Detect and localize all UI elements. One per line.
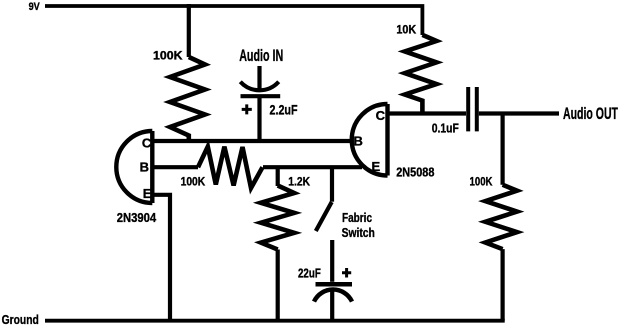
plus sign of C1 — [242, 104, 252, 114]
svg-text:Ground: Ground — [2, 312, 39, 327]
resistor R2 100K (horizontal) — [198, 147, 263, 188]
resistor R1 100K (left vertical) — [170, 57, 205, 143]
wire Q1 collector to Q2 base — [152, 139, 352, 143]
capacitor C2 22uF straight plate — [316, 282, 353, 287]
svg-text:E: E — [143, 186, 152, 201]
wire R2 to Q2 emitter — [263, 165, 362, 169]
svg-text:2N3904: 2N3904 — [117, 211, 157, 225]
svg-text:100K: 100K — [181, 175, 206, 189]
resistor R3 1.2K — [261, 186, 294, 250]
resistor R5 100K (right) — [485, 185, 517, 249]
svg-text:22uF: 22uF — [298, 266, 321, 281]
wire C3 to Audio OUT — [479, 111, 559, 115]
wire ground rail — [45, 319, 505, 323]
capacitor C3 0.1uF left plate — [466, 87, 470, 131]
switch SW1 top lead — [330, 167, 334, 202]
svg-text:Audio OUT: Audio OUT — [563, 104, 618, 123]
switch SW1 bottom lead — [330, 240, 334, 282]
svg-text:100K: 100K — [470, 174, 493, 188]
switch SW1 lever — [316, 202, 332, 231]
svg-text:C: C — [376, 108, 386, 123]
svg-text:B: B — [140, 160, 149, 175]
wire Q1 base lead — [152, 165, 198, 169]
wire 9V rail to 100K left lead — [187, 4, 191, 57]
svg-text:9V: 9V — [29, 1, 41, 13]
wire output node down to R5 — [501, 114, 505, 185]
transistor Q1 2N3904 body — [116, 131, 152, 203]
wire Q2 collector line — [388, 111, 467, 115]
wire C2 bottom lead to ground — [330, 291, 334, 321]
svg-text:100K: 100K — [153, 48, 183, 62]
wire Q1 emitter to ground — [152, 195, 170, 321]
transistor Q2 2N5088 body — [352, 104, 388, 176]
svg-text:1.2K: 1.2K — [288, 175, 310, 189]
wire 9V rail with corner to 10K — [45, 6, 422, 35]
wire C1 bottom lead — [257, 96, 261, 141]
svg-text:E: E — [372, 159, 381, 174]
wire R3 bottom lead to ground — [276, 250, 280, 321]
svg-text:C: C — [142, 135, 152, 150]
wire 1.2K top lead — [276, 167, 280, 186]
capacitor C2 22uF curved plate — [314, 290, 352, 302]
svg-text:Audio IN: Audio IN — [239, 46, 283, 65]
svg-text:2.2uF: 2.2uF — [270, 102, 298, 117]
wire Audio IN lead — [257, 66, 261, 92]
capacitor C1 2.2uF straight plate — [241, 94, 281, 98]
svg-text:Fabric: Fabric — [342, 210, 372, 225]
svg-text:Switch: Switch — [342, 225, 375, 240]
svg-text:0.1uF: 0.1uF — [432, 120, 459, 135]
capacitor C1 2.2uF curved plate — [240, 82, 278, 91]
svg-text:2N5088: 2N5088 — [396, 166, 434, 180]
svg-text:10K: 10K — [396, 22, 416, 36]
resistor R4 10K — [405, 35, 437, 114]
svg-text:B: B — [354, 133, 363, 148]
wire R5 bottom lead to ground — [501, 249, 505, 321]
capacitor C3 0.1uF right plate — [475, 87, 479, 131]
plus sign of C2 — [342, 268, 351, 278]
